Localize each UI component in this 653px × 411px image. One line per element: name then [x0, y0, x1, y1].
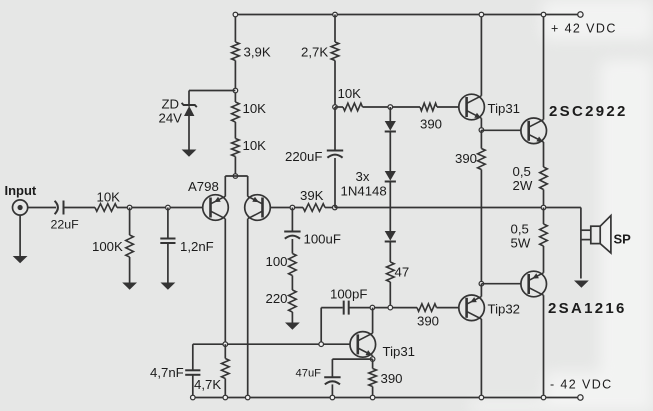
svg-text:Input: Input — [5, 183, 37, 198]
terminal +42 VDC — [578, 12, 583, 17]
label 100pF — [330, 287, 367, 302]
transistor Q1 A798 left — [203, 195, 229, 221]
svg-text:5W: 5W — [511, 236, 531, 251]
svg-text:100K: 100K — [92, 239, 123, 254]
wire Q1 collector down — [224, 219, 226, 345]
wire Q6 collector to rail — [543, 15, 545, 120]
svg-text:220: 220 — [266, 291, 288, 306]
node output — [541, 205, 546, 210]
wire +42V top rail — [235, 14, 580, 16]
wire 220 gnd — [291, 312, 293, 323]
resistor R 47 — [387, 262, 395, 282]
label 100K — [92, 239, 123, 254]
svg-text:2SA1216: 2SA1216 — [548, 300, 627, 317]
resistor R 10K upper — [232, 102, 240, 122]
label 3,9K — [244, 45, 271, 60]
wire 2,7K top — [334, 15, 336, 43]
wire diode col b — [389, 132, 391, 172]
label A798 — [188, 179, 219, 194]
wire ZD to gnd — [188, 116, 190, 150]
svg-text:4,7K: 4,7K — [194, 377, 221, 392]
svg-text:220uF: 220uF — [285, 149, 322, 164]
label -42 VDC — [550, 378, 613, 392]
node bottom rail — [330, 395, 335, 400]
svg-text:A798: A798 — [188, 179, 219, 194]
wire R390u down — [480, 170, 482, 284]
svg-text:Tip32: Tip32 — [488, 302, 521, 317]
node diode top — [388, 105, 393, 110]
node Tip31b collector — [370, 305, 375, 310]
transistor Q4 Tip31 upper — [459, 94, 485, 120]
input jack — [13, 200, 28, 215]
wire jack to C1 — [28, 207, 56, 209]
transistor Q3 Tip31 driver — [350, 332, 376, 358]
wire 100K top — [129, 208, 131, 236]
node base-4,7K — [223, 342, 228, 347]
wire ZD branch — [189, 90, 235, 92]
transistor Q6 2SC2922 — [521, 118, 547, 144]
wire 47uF vert — [331, 359, 333, 377]
resistor R 0,5 5W — [540, 224, 548, 246]
svg-text:SP: SP — [614, 232, 632, 247]
svg-text:390: 390 — [455, 151, 477, 166]
resistor R 100K — [126, 235, 134, 257]
label 390 upper — [455, 151, 477, 166]
node top rail left corner — [233, 12, 238, 17]
label +42 VDC — [551, 22, 617, 36]
wire 100 to 220 — [291, 276, 293, 291]
wire Q5 collector to rail — [480, 319, 482, 398]
node bottom rail — [479, 395, 484, 400]
label 10K bias — [338, 86, 362, 101]
node bottom rail — [370, 395, 375, 400]
wire output corner — [580, 208, 582, 279]
wire 100pF right — [349, 307, 417, 309]
label 10K lower — [243, 138, 267, 153]
resistor R 100 — [289, 254, 297, 276]
wire 47uF stub — [332, 358, 372, 360]
label 0,5 5W — [511, 222, 531, 251]
wire 100uF to 100 — [291, 239, 293, 254]
svg-text:ZD: ZD — [162, 97, 180, 112]
label ZD — [162, 97, 180, 112]
wire Q6 emitter down — [543, 142, 545, 167]
wire bias node to 220uF — [334, 107, 336, 151]
wire 1,2nF top — [167, 208, 169, 239]
transistor Q7 2SA1216 — [521, 271, 547, 297]
svg-text:3,9K: 3,9K — [244, 45, 271, 60]
wire 100pF left corner v — [320, 308, 322, 345]
capacitor C 100pF — [344, 301, 349, 315]
svg-text:1,2nF: 1,2nF — [180, 239, 214, 254]
label 47 — [395, 265, 410, 280]
label Tip31 driver — [383, 344, 416, 359]
svg-text:2,7K: 2,7K — [301, 45, 328, 60]
diode D1 1N4148 — [385, 121, 396, 132]
resistor R 390 bias — [420, 103, 437, 111]
svg-text:4,7nF: 4,7nF — [150, 365, 184, 380]
svg-text:39K: 39K — [300, 188, 324, 203]
ground 100K — [122, 283, 137, 290]
wire 47 down — [389, 282, 391, 308]
wire 4,7K top — [224, 344, 226, 358]
node feedback — [290, 205, 295, 210]
resistor R 390 emitter — [369, 369, 377, 387]
resistor R 4,7K — [222, 359, 230, 379]
label 100 — [266, 254, 288, 269]
node rail Q4 — [479, 12, 484, 17]
wire bias to Tip31 base — [437, 106, 459, 108]
wire 4,7nF vert — [192, 344, 194, 370]
label 390 bias — [420, 117, 442, 132]
wire 4,7nF to rail — [192, 375, 194, 398]
wire spk stub bot — [581, 239, 591, 241]
label 2SA1216 — [548, 300, 627, 317]
label 1N4148 — [341, 184, 387, 199]
wire tail left — [224, 176, 226, 197]
svg-text:100uF: 100uF — [304, 232, 341, 247]
svg-text:+ 42 VDC: + 42 VDC — [551, 22, 617, 36]
transistor Q2 A798 right — [245, 195, 271, 221]
node tail — [233, 174, 238, 179]
transistor Q5 Tip32 — [459, 295, 485, 321]
node ZD branch — [233, 88, 238, 93]
wire tail right — [247, 176, 249, 197]
wire C1 to 10K — [64, 207, 96, 209]
capacitor C 220uF — [327, 151, 343, 158]
svg-text:1N4148: 1N4148 — [341, 184, 387, 199]
node bias left — [333, 105, 338, 110]
node bottom rail — [245, 395, 250, 400]
wire diode col c — [389, 182, 391, 232]
label 10K upper — [243, 101, 267, 116]
label 100uF — [304, 232, 341, 247]
ground ZD — [182, 150, 197, 157]
wire 10K to tail — [234, 157, 236, 177]
svg-text:2SC2922: 2SC2922 — [549, 103, 628, 120]
svg-text:0,5: 0,5 — [513, 164, 531, 179]
node Q3 emitter — [370, 357, 375, 362]
svg-text:390: 390 — [381, 371, 403, 386]
resistor R 3,9K — [232, 42, 240, 61]
capacitor C 1,2nF — [160, 239, 175, 244]
node 1,2nF junction — [166, 205, 171, 210]
svg-text:Tip31: Tip31 — [488, 101, 521, 116]
label 220 — [266, 291, 288, 306]
wire Q3e to R390 — [372, 359, 374, 368]
wire bias b — [363, 106, 421, 108]
resistor R 220 — [289, 290, 297, 312]
svg-text:390: 390 — [420, 117, 442, 132]
node Q4e — [479, 128, 484, 133]
wire 220uF down — [334, 158, 336, 208]
capacitor C 47uF — [324, 377, 340, 384]
label 3x — [356, 169, 370, 184]
resistor R 39K — [303, 204, 325, 212]
wire Q4 emitter down — [480, 118, 482, 130]
wire between 10Ks — [234, 122, 236, 139]
resistor R 10K input — [95, 204, 117, 212]
wire 47uF to rail — [331, 384, 333, 397]
label 24V — [159, 111, 183, 126]
wire 3,9K to 10K — [234, 61, 236, 103]
svg-text:100: 100 — [266, 254, 288, 269]
ground feedback — [285, 323, 300, 330]
svg-text:- 42 VDC: - 42 VDC — [550, 378, 613, 392]
label Tip31 upper — [488, 101, 521, 116]
resistor R 2,7K — [331, 42, 339, 61]
capacitor C 22uF — [55, 201, 64, 215]
node 39K right — [333, 205, 338, 210]
wire tail bar — [225, 175, 247, 177]
svg-text:24V: 24V — [159, 111, 183, 126]
node 47 bottom — [388, 305, 393, 310]
ground speaker — [574, 281, 589, 288]
svg-text:3x: 3x — [356, 169, 370, 184]
wire Q4e to R390 — [480, 130, 482, 149]
resistor R 10K lower — [232, 139, 240, 157]
wire Q5 emitter up — [480, 284, 482, 297]
svg-text:10K: 10K — [243, 101, 267, 116]
wire Q7 base — [481, 283, 520, 285]
wire spk stub top — [581, 229, 591, 231]
svg-text:22uF: 22uF — [51, 218, 80, 232]
label 4,7nF — [150, 365, 184, 380]
svg-text:Tip31: Tip31 — [383, 344, 416, 359]
wire diode col d — [389, 242, 391, 263]
svg-text:390: 390 — [417, 314, 439, 329]
wire R to output node — [543, 190, 545, 208]
diode D3 1N4148 — [385, 231, 396, 242]
wire Q4e to 2SC base — [481, 129, 520, 131]
wire 100pF left — [321, 307, 343, 309]
svg-text:47uF: 47uF — [296, 368, 322, 380]
capacitor C 4,7nF — [185, 370, 200, 375]
label 4,7K — [194, 377, 221, 392]
node 2,7K top — [333, 12, 338, 17]
label 390 driver — [417, 314, 439, 329]
label 390 emitter — [381, 371, 403, 386]
label 1,2nF — [180, 239, 214, 254]
ground input — [13, 256, 28, 263]
resistor R 10K bias — [343, 103, 363, 111]
wire output to R5W — [543, 208, 545, 225]
label Input — [5, 183, 37, 198]
wire R5W to Q7 — [543, 246, 545, 273]
wire feedback down — [291, 208, 293, 232]
svg-text:47: 47 — [395, 265, 410, 280]
node bottom rail — [223, 395, 228, 400]
resistor R 0,5 2W — [540, 167, 548, 190]
node Tip32 emitter node — [479, 281, 484, 286]
wire base line — [193, 343, 350, 345]
wire Q3 emitter down — [372, 356, 374, 360]
label 220uF — [285, 149, 322, 164]
wire 1,2nF gnd — [167, 243, 169, 283]
wire Q7 collector to rail — [543, 295, 545, 397]
label 10K input — [97, 190, 121, 205]
wire 2,7K to bias node — [334, 61, 336, 108]
wire Q2 collector down — [247, 219, 249, 398]
wire bias a — [335, 106, 343, 108]
wire 100K gnd — [129, 257, 131, 283]
resistor R 390 driver — [417, 304, 437, 312]
label 47uF — [296, 368, 322, 380]
wire 39K to 220uF col — [325, 207, 335, 209]
wire Q3 collector up — [372, 308, 374, 334]
wire 390 to Tip32 base — [437, 307, 459, 309]
label 0,5 2W — [513, 164, 533, 193]
label 2,7K — [301, 45, 328, 60]
label 39K — [300, 188, 324, 203]
wire R390 to rail — [372, 387, 374, 398]
wire Q2 base to 39K — [270, 207, 303, 209]
svg-text:0,5: 0,5 — [511, 222, 529, 237]
label SP — [614, 232, 632, 247]
terminal -42 VDC — [578, 395, 583, 400]
label 2SC2922 — [549, 103, 628, 120]
wire -42V bottom rail — [193, 397, 581, 399]
node rail Q6 — [541, 12, 546, 17]
svg-text:10K: 10K — [97, 190, 121, 205]
node bottom rail — [191, 395, 196, 400]
wire diode col a — [389, 107, 391, 121]
ground 1,2nF — [161, 283, 176, 290]
diode ZD 24V zener — [182, 103, 197, 116]
wire 4,7K to rail — [224, 379, 226, 398]
speaker SP — [591, 216, 611, 254]
label Tip32 — [488, 302, 521, 317]
capacitor C 100uF — [284, 232, 300, 239]
resistor R 390 upper — [478, 149, 486, 170]
wire jack gnd — [19, 215, 21, 256]
svg-text:100pF: 100pF — [330, 287, 367, 302]
label 22uF — [51, 218, 80, 232]
svg-text:10K: 10K — [338, 86, 362, 101]
wire 10K to base — [117, 207, 203, 209]
svg-text:2W: 2W — [513, 178, 533, 193]
wire 3,9K top — [234, 15, 236, 43]
svg-text:10K: 10K — [243, 138, 267, 153]
wire Q4 collector to rail — [480, 15, 482, 96]
node 100K junction — [127, 205, 132, 210]
diode D2 1N4148 — [385, 171, 396, 182]
wire ZD vert — [188, 91, 190, 107]
wire mid to output — [335, 207, 581, 209]
node base-100pF — [319, 342, 324, 347]
node bottom rail — [541, 395, 546, 400]
